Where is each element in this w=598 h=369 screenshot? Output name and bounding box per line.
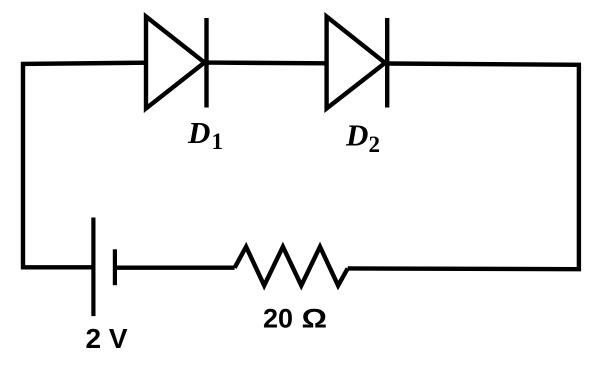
- diode D1 cathode bar: [204, 18, 208, 108]
- wire: D2 cathode to top-right corner, down right side, to resistor right lead: [348, 64, 579, 270]
- svg-text:Ω: Ω: [302, 304, 328, 334]
- diode D2 triangle: [327, 17, 386, 109]
- svg-text:20: 20: [263, 304, 293, 334]
- battery B1 long plate (positive): [91, 218, 95, 317]
- diode D2 cathode bar: [385, 18, 389, 108]
- wire: battery positive plate to bottom-left corner, up left side, to D1 anode: [23, 63, 146, 268]
- diode D1 triangle: [146, 17, 205, 109]
- resistor R1 zigzag (20 ohm): [235, 247, 348, 286]
- battery B1 short plate (negative): [113, 249, 117, 285]
- svg-text:2 V: 2 V: [86, 323, 128, 354]
- svg-text:D2: D2: [345, 118, 380, 158]
- svg-text:D1: D1: [187, 115, 223, 154]
- wire: resistor left lead to battery negative plate: [115, 266, 235, 270]
- wire: D1 cathode to D2 anode: [207, 60, 327, 65]
